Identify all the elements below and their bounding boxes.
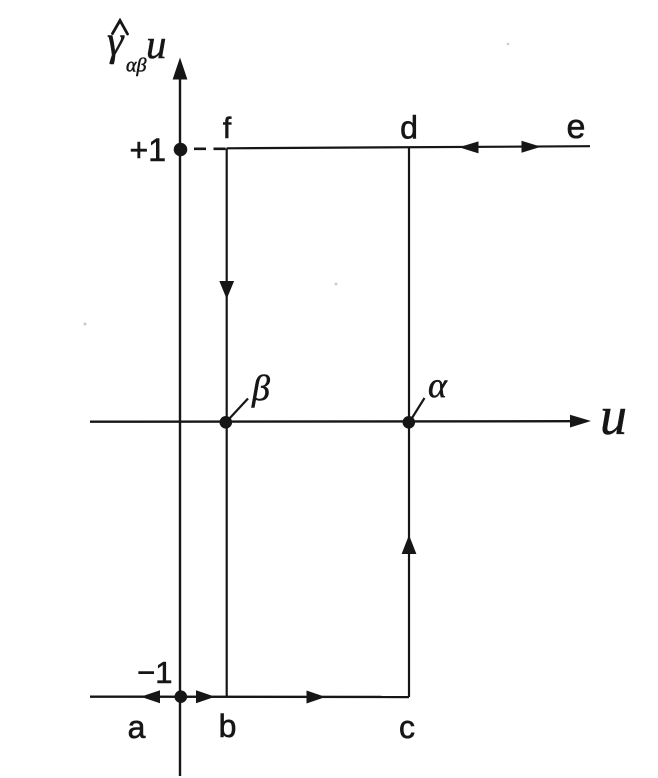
- svg-text:c: c: [399, 709, 415, 745]
- x-axis arrowhead: [570, 415, 591, 428]
- upward arrowhead on c-d line: [402, 535, 417, 554]
- axis label gamma-hat_alphabeta u: [107, 19, 167, 77]
- y-axis arrowhead: [173, 58, 188, 80]
- tick from alpha dot to alpha label: [412, 398, 425, 418]
- svg-text:u: u: [146, 21, 167, 67]
- x-axis (u axis): [90, 420, 574, 423]
- scan speck top right: [507, 43, 510, 46]
- svg-text:d: d: [400, 110, 418, 146]
- left side of loop: vertical line f to b: [226, 148, 228, 697]
- arrow pointing left toward d: [459, 141, 479, 153]
- arrow pointing right toward c: [307, 691, 326, 704]
- dot at alpha on u-axis: [403, 416, 416, 429]
- y-axis (vertical axis): [179, 76, 181, 776]
- svg-text:−1: −1: [137, 655, 172, 690]
- tick from beta dot to beta label: [229, 399, 248, 420]
- scan speck mid: [335, 283, 338, 286]
- top line at +1 from f through d to e: [227, 146, 590, 148]
- svg-text:β: β: [251, 368, 270, 408]
- arrow pointing right toward e: [522, 141, 542, 153]
- right side of loop: vertical line c to d: [408, 147, 410, 698]
- scan speck left: [84, 323, 87, 326]
- bottom line at -1 from a through b to c: [90, 696, 409, 699]
- svg-text:a: a: [128, 709, 146, 745]
- downward arrowhead on f-b line: [219, 281, 234, 299]
- dot at beta on u-axis: [220, 416, 233, 429]
- svg-text:e: e: [567, 108, 586, 146]
- svg-text:α: α: [428, 365, 448, 405]
- svg-text:b: b: [219, 708, 237, 744]
- arrow pointing right toward b: [196, 690, 215, 703]
- dot at -1 on y-axis: [175, 690, 188, 703]
- arrow pointing left toward a: [141, 690, 160, 703]
- svg-text:u: u: [600, 386, 627, 446]
- dashed line from +1 dot to corner f: [194, 148, 226, 151]
- svg-text:f: f: [223, 112, 232, 145]
- svg-text:αβ: αβ: [126, 55, 146, 77]
- svg-text:+1: +1: [130, 132, 166, 168]
- dot at +1 on y-axis: [174, 143, 188, 157]
